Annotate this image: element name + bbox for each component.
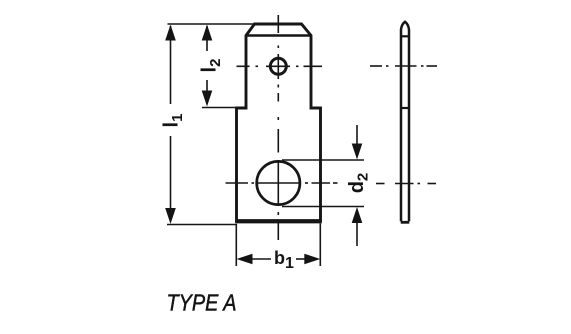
dimension line l2 [206, 26, 208, 104]
vertical centerline of front view [277, 15, 279, 240]
large hole [257, 161, 300, 204]
extension line top (l1/l2) [168, 23, 257, 25]
b1 dimension stems [252, 258, 305, 260]
d2 bottom arrow [352, 207, 363, 223]
side view shoulder line [401, 107, 409, 109]
side view centerline (small hole level) [370, 65, 437, 67]
side view chamfer line [401, 35, 409, 37]
d2 dimension stems [356, 125, 358, 246]
horizontal centerline through small hole [237, 65, 323, 67]
l1 top arrow [165, 25, 176, 41]
b1 right arrow [304, 254, 320, 265]
dimension line l1 [170, 26, 172, 221]
svg-text:TYPE A: TYPE A [167, 290, 237, 316]
d2 extension lines [282, 159, 364, 161]
l2 top arrow [202, 25, 213, 41]
b1 extension lines [235, 224, 237, 266]
extension line shoulder (l2 bottom) [202, 107, 238, 109]
arrowheads [165, 25, 362, 265]
tab front view outline [237, 24, 321, 221]
d2 top arrow [352, 144, 363, 160]
side view strip [401, 22, 410, 223]
front view bottom edge (thick) [235, 220, 322, 223]
small hole [270, 58, 286, 74]
l1 bottom arrow [165, 208, 176, 224]
blade chamfer bottom edge [246, 34, 311, 36]
extension line bottom (l1 bottom) [167, 224, 237, 226]
b1 left arrow [237, 254, 253, 265]
side view centerline (large hole level) [376, 183, 436, 185]
l2 bottom arrow [202, 91, 213, 107]
horizontal centerline through large hole [226, 182, 338, 184]
